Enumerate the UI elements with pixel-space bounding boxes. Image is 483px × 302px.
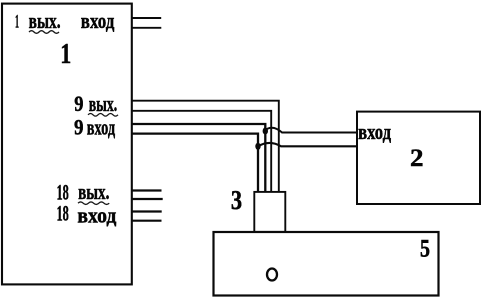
svg-text:1: 1 [15, 12, 19, 33]
svg-text:9: 9 [74, 114, 84, 139]
svg-text:18: 18 [57, 201, 69, 226]
svg-text:1: 1 [60, 38, 71, 70]
svg-text:9: 9 [74, 91, 83, 116]
svg-text:вход: вход [77, 203, 116, 228]
svg-text:2: 2 [410, 145, 424, 172]
svg-text:вых.: вых. [29, 8, 61, 33]
svg-text:вход: вход [87, 114, 115, 139]
svg-text:5: 5 [420, 236, 430, 263]
svg-text:3: 3 [231, 185, 242, 215]
svg-text:вход: вход [358, 119, 391, 144]
svg-text:вых.: вых. [89, 91, 118, 116]
svg-text:вход: вход [81, 8, 115, 33]
svg-text:вых.: вых. [78, 179, 109, 204]
